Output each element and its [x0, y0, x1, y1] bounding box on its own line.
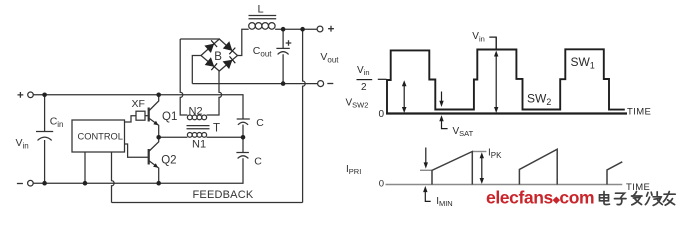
svg-text:B: B — [214, 51, 222, 63]
svg-text:C: C — [256, 117, 264, 129]
svg-text:T: T — [213, 122, 220, 134]
svg-text:elecfans◆com: elecfans◆com — [486, 188, 594, 208]
svg-text:C: C — [254, 155, 262, 167]
svg-text:FEEDBACK: FEEDBACK — [193, 189, 254, 201]
svg-text:0: 0 — [379, 109, 385, 120]
svg-text:N2: N2 — [189, 105, 203, 117]
svg-text:TIME: TIME — [627, 106, 651, 117]
svg-text:XF: XF — [132, 98, 145, 110]
svg-text:Q2: Q2 — [161, 155, 176, 167]
svg-text:0: 0 — [379, 179, 384, 190]
svg-text:TIME: TIME — [626, 182, 650, 193]
svg-text:2: 2 — [361, 82, 367, 93]
svg-text:L: L — [258, 3, 264, 15]
svg-text:N1: N1 — [192, 139, 206, 151]
svg-text:CONTROL: CONTROL — [78, 131, 123, 141]
svg-text:Q1: Q1 — [162, 111, 177, 123]
